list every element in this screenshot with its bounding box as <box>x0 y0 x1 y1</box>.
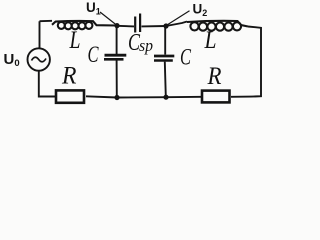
wire top-right corner and right side <box>248 27 261 97</box>
svg-text:sp: sp <box>139 36 153 55</box>
node bottom right <box>163 95 168 100</box>
capacitor C right shunt <box>154 56 174 61</box>
svg-text:R: R <box>207 63 222 90</box>
resistor R2 right <box>202 91 230 103</box>
wire right shunt branch <box>165 26 166 97</box>
node U1 <box>114 23 119 28</box>
resistor R1 left <box>56 90 84 102</box>
wire R2 to node <box>86 96 202 97</box>
pointer U1 <box>100 12 116 25</box>
inductor L1 left coil <box>52 21 117 29</box>
wire left side (top stub, source stubs, bottom corner) <box>39 21 56 96</box>
capacitor Csp series <box>135 14 140 33</box>
pointer U2 <box>167 11 190 25</box>
svg-text:R: R <box>61 63 76 90</box>
wire U1 to Csp <box>117 25 134 28</box>
svg-text:C: C <box>180 45 191 70</box>
wire bottom right segment <box>231 96 252 98</box>
node U2 <box>163 23 168 28</box>
svg-text:C: C <box>88 42 99 67</box>
wire left shunt branch <box>116 26 118 97</box>
svg-text:L: L <box>69 27 81 54</box>
voltage source U0 <box>28 48 50 70</box>
svg-text:L: L <box>204 27 217 54</box>
node bottom left <box>114 95 119 100</box>
wire top-left <box>40 20 53 22</box>
wire U2 to L2 <box>166 22 187 27</box>
inductor L2 right coil <box>187 21 248 31</box>
capacitor C left shunt <box>104 55 126 59</box>
wire Csp to U2 <box>142 25 167 27</box>
